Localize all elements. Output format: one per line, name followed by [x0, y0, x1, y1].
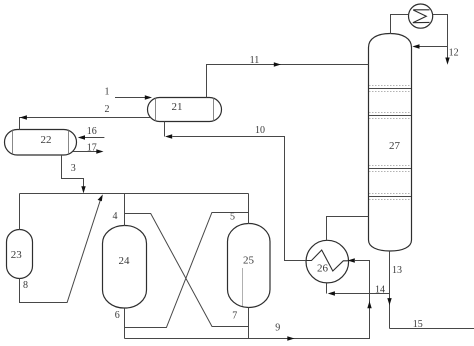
wire stream 3 — [62, 155, 84, 187]
arrow stream 14 — [328, 291, 335, 295]
svg-text:7: 7 — [232, 311, 237, 322]
svg-text:9: 9 — [275, 323, 280, 334]
arrow stream 8 — [98, 194, 103, 201]
arrow into exchanger 26 right — [348, 258, 355, 262]
arrow stream 12 — [445, 58, 449, 65]
wire stream 5 branch — [125, 213, 249, 328]
wire exchanger 26 top to column — [327, 217, 369, 241]
svg-text:10: 10 — [255, 125, 265, 136]
svg-text:11: 11 — [250, 55, 260, 66]
arrow stream 9 up — [367, 301, 371, 308]
column 27 tray 2 — [369, 113, 411, 119]
arrow stream 16 — [78, 135, 85, 139]
arrow stream 2 — [20, 115, 27, 119]
column 27 tray 4 — [369, 194, 411, 200]
heat exchanger 26 — [306, 240, 349, 283]
arrow stream 1 — [145, 95, 152, 99]
wire stream 6 outlet — [124, 308, 126, 339]
svg-text:13: 13 — [392, 265, 402, 276]
vessel 23 — [7, 230, 33, 279]
vessel 24 — [103, 226, 147, 309]
svg-text:3: 3 — [71, 163, 76, 174]
svg-text:27: 27 — [389, 140, 401, 152]
svg-text:6: 6 — [115, 310, 120, 321]
arrow stream 10 — [165, 134, 172, 138]
svg-text:21: 21 — [172, 101, 183, 113]
svg-text:1: 1 — [105, 87, 110, 98]
wire stream 16 — [84, 137, 105, 139]
wire stream 4 branch — [125, 214, 249, 327]
wire stream 10 drop to vessel 21 — [164, 122, 166, 137]
wire stream 13 — [389, 251, 391, 329]
svg-text:16: 16 — [87, 126, 97, 137]
vessel 25 — [228, 224, 271, 308]
svg-text:26: 26 — [317, 263, 329, 275]
arrow stream 3 — [81, 186, 85, 193]
wire stream 7 outlet — [248, 308, 250, 339]
arrow stream 13 down — [387, 298, 391, 305]
wire stream 9 — [125, 261, 370, 339]
svg-text:17: 17 — [87, 143, 97, 154]
svg-text:15: 15 — [413, 319, 423, 330]
svg-text:22: 22 — [41, 134, 52, 146]
vessel 25 internal dip tube — [242, 268, 244, 306]
column 27 — [369, 34, 412, 252]
condenser — [409, 4, 433, 28]
wire to vessel 24 top — [124, 194, 126, 227]
wire stream 17 — [73, 151, 97, 153]
wire stream 10 — [172, 137, 306, 261]
wire stream 1 — [115, 97, 146, 99]
wire stream 14 — [334, 293, 390, 295]
svg-text:12: 12 — [449, 47, 459, 58]
wire to vessel 23 top — [19, 194, 21, 231]
wire condenser outlet — [433, 15, 448, 59]
column 27 tray 1 — [369, 86, 411, 92]
column 27 tray 3 — [369, 166, 411, 172]
svg-text:14: 14 — [375, 285, 385, 296]
svg-text:23: 23 — [11, 249, 23, 261]
wire exchanger 26 bottom — [326, 283, 328, 294]
wire stream 15 — [390, 328, 474, 330]
svg-text:8: 8 — [23, 280, 28, 291]
wire stream 2 — [20, 118, 151, 131]
wire column top to condenser — [391, 15, 409, 35]
wire to vessel 25 top — [248, 194, 250, 225]
wire stream 8 — [20, 198, 102, 303]
svg-text:5: 5 — [230, 212, 235, 223]
wire header node — [20, 193, 249, 195]
svg-text:25: 25 — [243, 255, 255, 267]
wire stream 11 — [207, 65, 369, 98]
wire reflux — [420, 46, 448, 48]
arrow stream 9 right — [287, 336, 294, 340]
arrow reflux — [412, 44, 419, 48]
svg-text:24: 24 — [119, 255, 131, 267]
svg-text:4: 4 — [113, 211, 118, 222]
vessel 21 — [148, 98, 222, 122]
svg-text:2: 2 — [105, 104, 110, 115]
arrow stream 11 — [274, 62, 281, 66]
arrow stream 17 — [96, 149, 103, 153]
vessel 22 — [5, 130, 77, 156]
